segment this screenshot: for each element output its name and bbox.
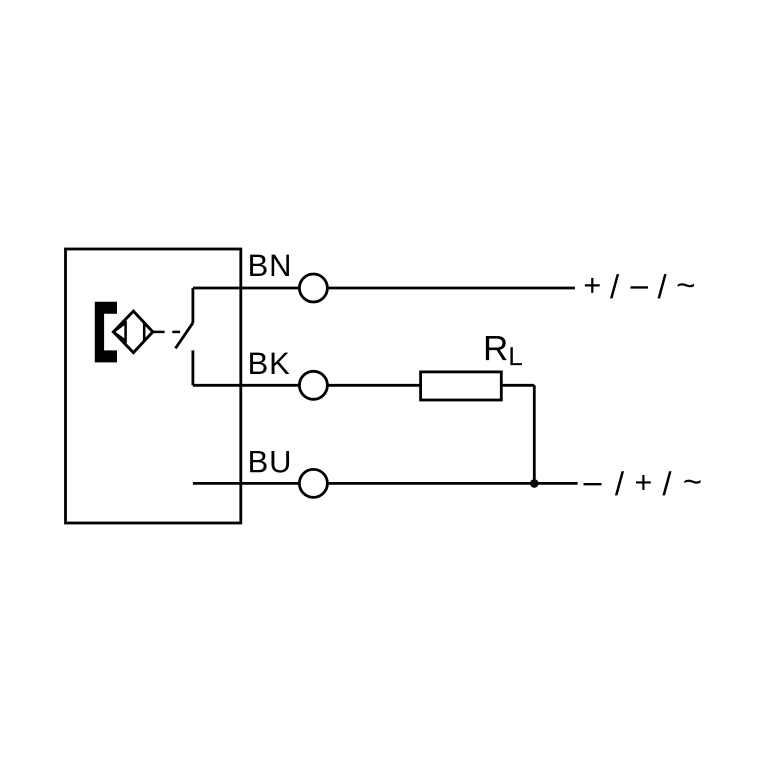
wire BK to resistor bbox=[328, 384, 421, 387]
switch contact (NO) bbox=[176, 288, 193, 385]
label RL bbox=[486, 336, 522, 365]
wire BU to label bbox=[328, 482, 578, 485]
sensor body box bbox=[66, 249, 241, 523]
terminal BN circle bbox=[299, 274, 327, 302]
wire BN horizontal bbox=[193, 287, 299, 290]
diamond right arrow triangle bbox=[144, 323, 153, 341]
wire BK horizontal bbox=[193, 384, 299, 387]
resistor RL bbox=[421, 372, 502, 400]
magnet bracket symbol bbox=[95, 302, 117, 363]
wire BU horizontal bbox=[193, 482, 299, 485]
label polarity bottom "- / + / ~" bbox=[584, 471, 701, 495]
proximity sensor diamond bbox=[113, 311, 152, 353]
label BU bbox=[250, 451, 289, 473]
wire BN to label bbox=[328, 287, 575, 290]
label polarity top "+ / - / ~" bbox=[585, 274, 694, 298]
wire corner down to junction bbox=[533, 385, 536, 483]
wire resistor to corner bbox=[501, 384, 534, 387]
actuation dashed link bbox=[153, 331, 180, 334]
label BN bbox=[250, 255, 289, 276]
terminal BU circle bbox=[299, 469, 327, 497]
diamond left arrow triangle bbox=[113, 323, 125, 341]
junction dot bbox=[530, 479, 539, 488]
terminal BK circle bbox=[299, 371, 327, 399]
label BK bbox=[250, 353, 289, 374]
